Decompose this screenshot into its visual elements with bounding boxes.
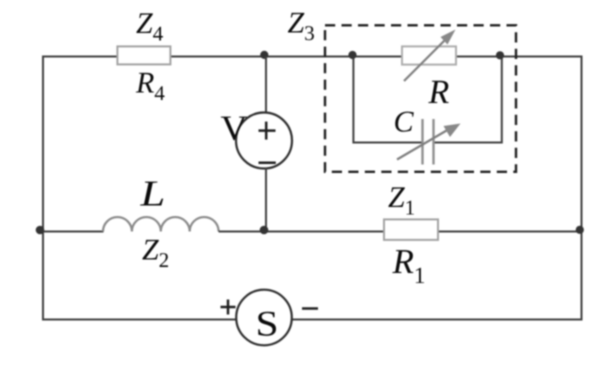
wire top segment A (42, 56, 118, 58)
node middle-center (260, 226, 269, 235)
wire middle segment C (438, 231, 583, 233)
wire left vertical (42, 57, 44, 320)
label C (395, 112, 414, 132)
wire bottom-left segment (42, 319, 237, 321)
wire middle segment A (42, 231, 104, 233)
label Z1 (388, 187, 414, 214)
plus sign left of S (221, 300, 236, 315)
label S (258, 312, 276, 336)
wire branch left vertical (352, 57, 354, 144)
node box-right (496, 51, 504, 59)
wire bottom-right segment (291, 319, 583, 321)
node middle-left (36, 226, 45, 235)
wire branch bottom-right (435, 142, 502, 144)
label Z4 (136, 13, 163, 40)
minus sign inside V (259, 162, 276, 165)
resistor Z1/R1 (384, 219, 438, 240)
node top-center (260, 51, 268, 59)
wire middle segment B (219, 231, 385, 233)
capacitor C plates (423, 119, 434, 165)
node box-left (348, 51, 356, 59)
node middle-right (576, 226, 584, 234)
wire top segment C (456, 56, 583, 58)
label R1 (392, 250, 424, 283)
arrow of variable resistor R (404, 30, 456, 82)
label L (140, 182, 163, 206)
label Z2 (142, 240, 168, 267)
plus sign inside V (259, 122, 276, 140)
voltmeter V circle (236, 113, 292, 169)
wire branch right vertical (501, 57, 503, 144)
minus sign right of S (302, 307, 318, 310)
wire top segment B (170, 56, 403, 58)
label R (428, 81, 448, 103)
arrow of variable capacitor C (397, 124, 461, 160)
wire branch bottom-left (353, 142, 421, 144)
wire right vertical (581, 57, 583, 320)
resistor Z4/R4 (117, 46, 170, 64)
label R4 (136, 73, 165, 100)
variable resistor R (402, 46, 456, 64)
label V (221, 117, 247, 141)
voltmeter V wire bottom (265, 168, 267, 232)
voltmeter V wire top (265, 57, 267, 114)
dashed box around R and C (325, 25, 516, 172)
source S circle (236, 290, 292, 346)
label Z3 (288, 13, 314, 40)
inductor L/Z2 (103, 217, 219, 231)
